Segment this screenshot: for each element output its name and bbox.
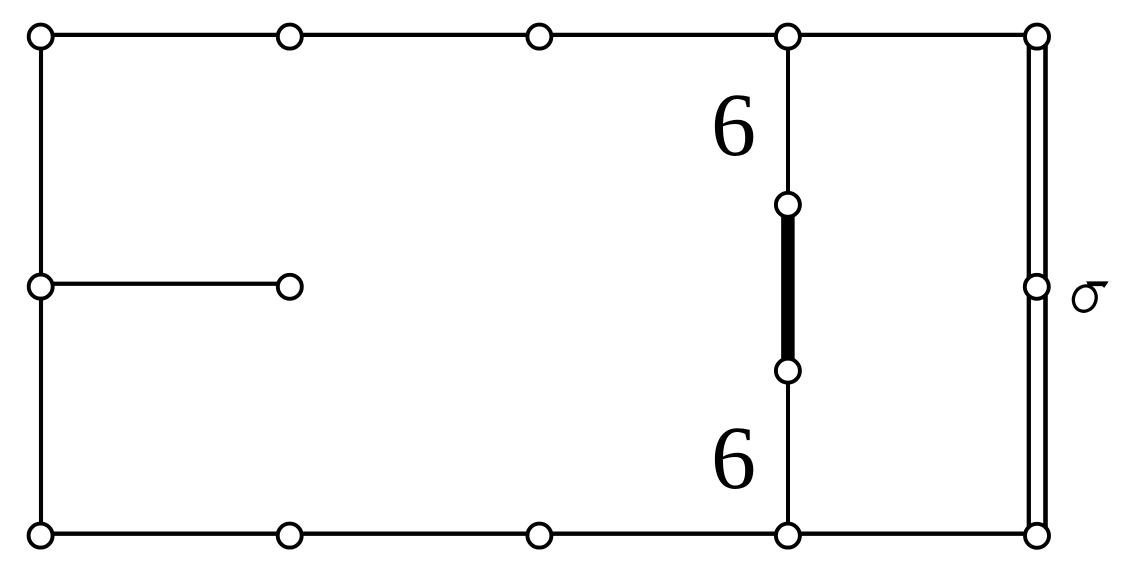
node top-right [1025,25,1049,49]
node bottom 3 [527,524,551,548]
wire top edge row [41,33,1037,37]
svg-text:6: 6 [711,76,756,175]
node top-left [29,25,53,49]
node middle-left [29,275,53,299]
node bottom 4 [776,524,800,548]
node inner lower [776,359,800,383]
node bottom 2 [278,524,302,548]
node dangling end [278,275,302,299]
wire double edge right line [1043,37,1048,536]
node bottom-left [29,524,53,548]
node top 2 [278,25,302,49]
wire left column edge [39,35,43,534]
wire bottom edge row [41,532,1037,536]
label sigma oval [1070,283,1100,315]
wire double edge left line [1027,37,1031,536]
wire thick marked segment [781,205,795,371]
node inner upper [776,193,800,217]
node bottom-right [1025,524,1049,548]
node top 3 [527,25,551,49]
node middle-right [1025,275,1049,299]
wire inner vertical edge [786,35,790,534]
wire middle dangling edge [41,282,290,286]
node top 4 [776,25,800,49]
label sigma bar [1086,281,1109,288]
svg-text:6: 6 [711,409,756,508]
